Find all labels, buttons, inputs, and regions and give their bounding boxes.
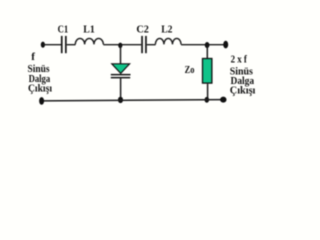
capacitor C2 (141, 36, 147, 53)
wire: input terminal to C1 (43, 44, 61, 46)
diode D1 (varactor, green) (112, 64, 130, 74)
node: junction diode top (118, 43, 122, 49)
node: output terminal bottom (220, 97, 226, 103)
node: junction Zo bottom (205, 97, 210, 103)
wire: bottom rail (42, 100, 223, 101)
resistor Zo (load, green) (203, 59, 212, 84)
diode cathode bar 2 (111, 77, 130, 79)
wire: Zo bottom lead (207, 84, 209, 100)
inductor L2 (155, 38, 181, 44)
wire: C1 to L1 (67, 44, 76, 46)
svg-text:C1: C1 (58, 23, 69, 35)
svg-text:f: f (31, 51, 35, 63)
node: input terminal bottom (39, 97, 44, 105)
svg-text:L1: L1 (83, 23, 95, 35)
wire: Zo top lead (206, 45, 208, 58)
wire: C2 to L2 (147, 44, 156, 46)
capacitor C1 (61, 36, 67, 53)
inductor L1 (75, 38, 103, 44)
wire: diode anode drop (120, 45, 122, 64)
svg-text:L2: L2 (161, 23, 173, 35)
node: junction diode bottom (118, 97, 123, 103)
diode cathode bar 1 (111, 74, 131, 76)
node: input terminal top (f) (41, 42, 45, 48)
svg-text:Çıkışı: Çıkışı (28, 82, 52, 94)
wire: L2 to output terminal top (181, 44, 226, 46)
svg-text:2 x f: 2 x f (231, 54, 248, 66)
svg-text:Çıkışı: Çıkışı (230, 85, 256, 97)
node: output terminal top (2xf) (223, 41, 228, 49)
node: junction Zo top (205, 42, 210, 48)
svg-text:C2: C2 (136, 23, 149, 35)
wire: L1 to C2 (103, 44, 141, 46)
wire: diode cathode to bottom rail (120, 78, 122, 100)
svg-text:Zo: Zo (185, 64, 195, 76)
